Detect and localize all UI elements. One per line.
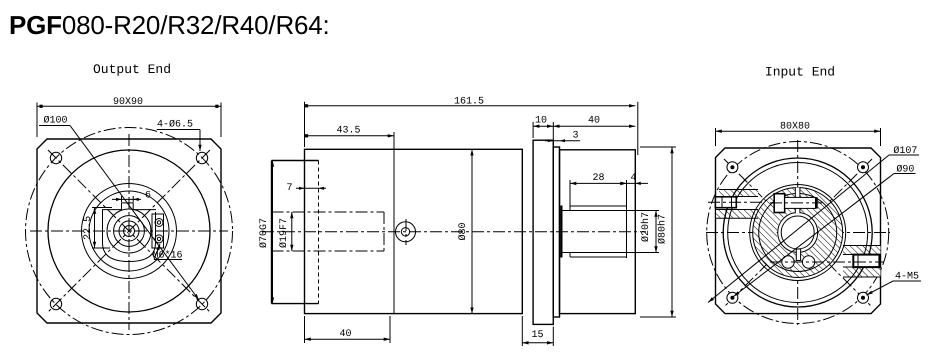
svg-text:Ø80: Ø80 (458, 222, 469, 240)
svg-text:Ø100: Ø100 (43, 116, 67, 127)
svg-text:10: 10 (535, 116, 547, 127)
svg-text:Ø20h7: Ø20h7 (640, 212, 652, 242)
svg-text:PGF080-R20/R32/R40/R64:: PGF080-R20/R32/R40/R64: (9, 10, 330, 40)
svg-text:6: 6 (145, 191, 151, 202)
svg-text:7: 7 (286, 183, 292, 194)
svg-text:Output End: Output End (93, 62, 171, 77)
svg-text:40: 40 (339, 329, 351, 340)
svg-text:Ø80h7: Ø80h7 (657, 214, 669, 244)
svg-text:15: 15 (531, 330, 543, 341)
svg-text:28: 28 (592, 173, 604, 184)
svg-text:4-Ø6.5: 4-Ø6.5 (157, 120, 193, 131)
svg-text:22.5: 22.5 (83, 216, 94, 240)
svg-text:Ø70G7: Ø70G7 (259, 218, 270, 248)
svg-text:Ø19F7: Ø19F7 (279, 218, 290, 248)
svg-text:3: 3 (572, 131, 578, 142)
svg-text:43.5: 43.5 (336, 125, 360, 136)
svg-text:90X90: 90X90 (113, 97, 143, 108)
svg-text:Input End: Input End (765, 65, 835, 80)
svg-text:40: 40 (588, 116, 600, 127)
svg-text:80X80: 80X80 (780, 122, 810, 133)
svg-text:161.5: 161.5 (454, 97, 484, 108)
svg-text:4: 4 (630, 173, 636, 184)
